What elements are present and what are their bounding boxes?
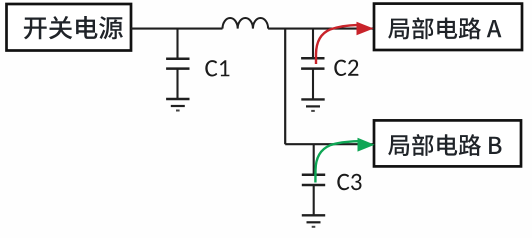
label C1 [205,60,229,76]
wire: C3 stem bottom [313,185,315,215]
wire: C2 stem bottom [312,69,314,99]
ground: below C3 [302,215,325,227]
wire: vertical drop to circuit B branch [284,29,286,145]
box: switching power supply 开关电源 [7,4,132,51]
ground: below C1 [166,99,189,111]
capacitor C1 [166,59,189,69]
label C2 [334,60,358,76]
wire: horizontal feed to local circuit B [285,143,373,145]
capacitor C3 [302,175,325,185]
box: local circuit B 局部电路 B [374,120,521,166]
inductor L1 [223,18,269,29]
label C3 [337,174,361,190]
wire: inductor to local circuit A [268,28,373,30]
wire: C3 stem top [313,144,315,174]
box: local circuit A 局部电路 A [374,4,522,50]
wire: C1 stem bottom [176,69,178,99]
wire: power supply output to inductor [131,28,223,30]
arrow: red noise path from C2 into local circuit A [316,22,374,64]
capacitor C2 [301,58,324,68]
wire: C1 stem top [176,29,178,58]
arrow: green decoupled path from C3 into local circuit B [315,138,374,183]
wire: C2 stem top [312,29,314,58]
ground: below C2 [301,99,324,111]
